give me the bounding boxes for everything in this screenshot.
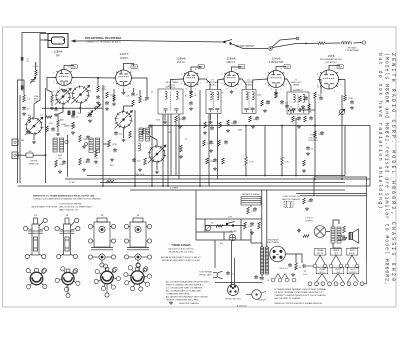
svg-text:AVC: AVC [110, 164, 114, 167]
capacitor C16 [189, 101, 193, 105]
svg-text:270: 270 [250, 108, 253, 110]
junction [281, 175, 283, 177]
wire V6 plate [339, 80, 346, 96]
filament pins row 2 [308, 282, 312, 286]
terminal ext ant [362, 41, 365, 44]
junction [97, 77, 99, 79]
svg-text:SENSITIVITY: TO OBTAIN MAXIMUM: SENSITIVITY: TO OBTAIN MAXIMUM ELECTRICA… [33, 195, 95, 198]
svg-text:A.C.: A.C. [220, 242, 224, 245]
trimmer capacitor C6B [95, 104, 101, 110]
capacitor [86, 135, 90, 139]
resistor R29 [314, 92, 317, 98]
capacitor C42 [254, 275, 258, 279]
label plate voltage V5 [284, 65, 290, 69]
wire [57, 127, 59, 132]
ground [54, 113, 58, 116]
capacitor C1 block [21, 57, 24, 61]
wire [123, 128, 125, 139]
resistor R17 [219, 122, 222, 128]
ground V5 [274, 91, 278, 94]
svg-text:(Models H860R and H8841-revise: (Models H860R and H8841-revised are simi… [384, 53, 390, 285]
wire rail x135 [134, 110, 136, 186]
svg-text:6: 6 [280, 68, 281, 70]
ground [138, 168, 142, 171]
phono jack terminals [213, 272, 223, 279]
resistor R45 [308, 104, 311, 110]
output transformer T5 [261, 247, 269, 274]
wire rail x103 [102, 85, 104, 186]
wire [67, 135, 69, 177]
resistor R40 [295, 263, 298, 270]
svg-text:3: 3 [271, 89, 272, 91]
svg-text:1: 1 [200, 83, 201, 85]
svg-text:470K: 470K [318, 134, 323, 136]
svg-text:4: 4 [181, 83, 182, 85]
capacitor C33 [250, 222, 254, 226]
wire rail x168 [167, 114, 169, 186]
svg-text:IF TRANSFORMER TERMINAL GUIDE: IF TRANSFORMER TERMINAL GUIDE WITH AC TE… [275, 288, 327, 291]
capacitor C12 [114, 131, 118, 135]
resistor R10 [139, 96, 142, 103]
wire gang C1A [58, 104, 63, 121]
label filament 12AT7 row 2 [332, 267, 344, 274]
svg-text:VOLUME: VOLUME [309, 137, 318, 139]
capacitor C23 [266, 100, 270, 104]
wire T2 to V4 grid [218, 79, 225, 90]
capacitor C31 [306, 146, 310, 150]
osc coil winding B [146, 128, 150, 141]
wire bus y186 [18, 185, 371, 187]
svg-text:DISCRIMINATOR DET: DISCRIMINATOR DET [320, 58, 343, 61]
ground [209, 149, 213, 152]
wire V6 plate supply [329, 66, 340, 71]
svg-text:EXT ANT: EXT ANT [347, 47, 357, 50]
wire gang C1C [124, 106, 134, 112]
svg-text:LIGHTS: LIGHTS [305, 220, 313, 222]
ground [189, 107, 193, 110]
svg-text:BACK OF CHASSIS: BACK OF CHASSIS [282, 198, 300, 201]
svg-text:6: 6 [334, 68, 335, 70]
svg-text:12BA6: 12BA6 [226, 56, 236, 60]
RF coil winding L3 secondary [96, 138, 100, 153]
wire [240, 219, 242, 240]
svg-text:LOOP: LOOP [33, 66, 39, 68]
svg-text:1ST I.F.: 1ST I.F. [177, 61, 186, 64]
ground [105, 107, 109, 110]
capacitor [86, 158, 90, 162]
pilot lamp PL1 [314, 226, 326, 238]
capacitor C17 [210, 126, 214, 130]
resistor R5 [57, 120, 60, 127]
wire V1 grid [47, 78, 56, 96]
wire power bus [196, 218, 262, 220]
wire [223, 232, 225, 240]
loop antenna [44, 34, 68, 48]
svg-text:FM DIAL AT FREQUENCY 90 MC & 1: FM DIAL AT FREQUENCY 90 MC & 106 MC [162, 259, 201, 262]
svg-text:A-10254-17: A-10254-17 [237, 304, 248, 307]
wire V5 plate supply [276, 67, 286, 71]
tuning gang C1D [148, 145, 166, 163]
svg-text:1: 1 [340, 85, 341, 87]
svg-text:117V: 117V [228, 217, 233, 219]
resistor R6 [72, 122, 75, 129]
IF transformer T1 [158, 89, 183, 114]
svg-text:PH PIN: PH PIN [31, 161, 38, 163]
wire gang C1B [80, 103, 82, 114]
wire top bus [121, 41, 224, 43]
phono input jack J2 [12, 152, 18, 159]
ground [350, 106, 354, 109]
wire [156, 162, 158, 170]
tube V5 12AV6 AM detector [266, 71, 287, 88]
arrow external antenna [71, 40, 76, 43]
svg-text:12AV6: 12AV6 [333, 249, 340, 252]
padder capacitor block [68, 111, 71, 116]
svg-text:OTHERWISE SPECIFIED.: OTHERWISE SPECIFIED. [166, 293, 191, 295]
wire [261, 274, 263, 276]
svg-text:2ND I.F.: 2ND I.F. [317, 253, 324, 255]
on-off switch S1B [226, 222, 234, 227]
junction [62, 107, 64, 109]
svg-text:PHONO MOTOR: PHONO MOTOR [225, 299, 241, 301]
wire V5 plate to T4 [285, 79, 292, 92]
ratio detector transformer T4 [287, 92, 309, 114]
ground V2 [122, 91, 126, 94]
svg-text:CONV: CONV [120, 56, 128, 60]
svg-text:88-108 MC F.M. (10.7 MC): 88-108 MC F.M. (10.7 MC) [169, 252, 194, 254]
resistor R31 [245, 157, 248, 165]
svg-text:INPUT TRANS: INPUT TRANS [166, 81, 179, 84]
junction [55, 107, 57, 109]
svg-text:260V: 260V [338, 67, 343, 69]
svg-text:SPKR COIL: SPKR COIL [29, 163, 41, 165]
resistor R41 [303, 198, 306, 204]
capacitor C37 [309, 198, 313, 202]
wire motor lead B [234, 258, 236, 285]
svg-text:SELENIUM: SELENIUM [268, 239, 279, 241]
resistor [55, 160, 58, 167]
svg-text:4.7K: 4.7K [249, 162, 254, 164]
resistor R16 [204, 122, 207, 128]
capacitor C24 [280, 100, 284, 104]
svg-text:455 KC: 455 KC [209, 85, 216, 87]
svg-text:.05: .05 [211, 223, 214, 225]
resistor R8 [113, 95, 116, 101]
wire V2 plate supply [124, 64, 134, 71]
svg-text:1ST I.F.: 1ST I.F. [319, 272, 326, 274]
svg-text:1: 1 [241, 83, 242, 85]
ground [56, 133, 60, 136]
wire [313, 177, 315, 196]
svg-text:2X12: 2X12 [49, 123, 53, 125]
capacitor C19 [209, 140, 213, 144]
junction [79, 107, 81, 109]
wire V1 plate to V2 [72, 77, 116, 80]
wire [245, 126, 247, 158]
svg-text:OSC: OSC [77, 113, 82, 115]
oscillator coil L5 [138, 143, 140, 151]
resistor R1 [23, 95, 26, 102]
svg-text:3: 3 [186, 88, 187, 90]
svg-text:.01: .01 [317, 87, 320, 89]
svg-text:AND THE REST OF CHASSIS.: AND THE REST OF CHASSIS. [275, 297, 302, 300]
wire left rail C [45, 88, 47, 183]
wire phono lead [18, 154, 26, 156]
ground [88, 119, 92, 122]
capacitor C4 [54, 107, 58, 111]
wire ant branch [272, 39, 296, 48]
ground [163, 121, 167, 124]
output transformer T6 secondary [337, 227, 341, 243]
svg-text:2.2 MEG: 2.2 MEG [170, 188, 178, 190]
wire bus y182 [100, 182, 345, 184]
label filament 12AV6 [330, 249, 342, 256]
coil L1 bottom view [26, 268, 47, 289]
wire [344, 126, 346, 176]
junction [239, 66, 241, 68]
junction [314, 125, 316, 127]
wire V4 plate supply [232, 67, 241, 72]
svg-text:but do not have radiation shie: but do not have radiation shielding). [377, 53, 383, 213]
resistor R37 [216, 225, 223, 228]
wire T1 lead 2 [178, 114, 180, 179]
svg-text:12BA6: 12BA6 [176, 56, 186, 60]
wire step to output [196, 190, 215, 268]
ground [71, 131, 75, 134]
antenna coil L1 [28, 115, 30, 123]
socket lugs [271, 274, 296, 282]
label plate voltage V4 [239, 65, 245, 69]
on-off switch S1A [224, 40, 232, 45]
resistor R32 [281, 157, 284, 165]
wire output primary riser B [266, 190, 268, 247]
wire rail x296 [295, 126, 297, 176]
resistor R48 [180, 145, 183, 152]
svg-text:PINS TO CHASSIS GROUND WITH A.: PINS TO CHASSIS GROUND WITH A.C. [166, 284, 204, 287]
ground [110, 158, 114, 161]
resistor R43 [343, 226, 346, 233]
ground [213, 167, 217, 170]
capacitor C30 [320, 131, 324, 135]
junction [102, 185, 104, 187]
wire rail x342 [341, 95, 343, 177]
resistor R44 [299, 96, 302, 102]
wire V3 plate supply [191, 67, 200, 72]
coil L3 bottom view [94, 264, 120, 297]
capacitor C11 [145, 96, 149, 100]
tuning gang C1C [114, 110, 132, 128]
resistor R49 [45, 116, 52, 119]
wire rail x152 [151, 126, 153, 187]
svg-text:TO AC OUTLET ON: TO AC OUTLET ON [282, 195, 300, 198]
capacitor C8 [96, 95, 100, 99]
wire [338, 237, 347, 240]
wire [210, 114, 212, 121]
wire bus y175 [87, 175, 345, 177]
svg-text:1 MEG: 1 MEG [83, 162, 90, 164]
svg-text:2: 2 [128, 88, 129, 90]
wire gang C1D lead [150, 136, 157, 146]
capacitor C7 [88, 113, 92, 117]
junction [94, 107, 96, 109]
wire [338, 235, 345, 237]
coil L2 bottom view [55, 267, 80, 298]
svg-text:19T8: 19T8 [350, 250, 356, 252]
resistor R22 [222, 158, 225, 164]
svg-text:540-1620 KC A.M. (455 KC): 540-1620 KC A.M. (455 KC) [168, 247, 194, 250]
capacitor C26 [309, 116, 313, 120]
wire antenna feed [40, 34, 48, 41]
svg-text:4: 4 [265, 84, 266, 86]
svg-text:.05: .05 [26, 61, 29, 63]
svg-text:40: 40 [267, 280, 269, 282]
svg-text:6: 6 [236, 69, 237, 71]
svg-text:470K: 470K [112, 144, 117, 146]
phono input jack J1 [12, 139, 18, 146]
resistor R12 [142, 128, 145, 135]
svg-text:12AV6: 12AV6 [271, 56, 280, 60]
svg-text:35C5-GT: 35C5-GT [279, 268, 288, 270]
terminal [65, 140, 68, 143]
ground V4 [230, 90, 234, 93]
wire [345, 125, 370, 127]
wire [333, 243, 341, 248]
resistor R28 [288, 109, 295, 112]
junction [270, 48, 272, 50]
junction [314, 125, 316, 127]
ground [305, 207, 309, 210]
svg-text:220K: 220K [348, 98, 353, 100]
svg-text:WIRING IN CONTROLS FACING 5 SQ: WIRING IN CONTROLS FACING 5 SQUARE VERSI… [275, 302, 323, 305]
ground [155, 171, 159, 174]
wire power bus 4 [215, 239, 251, 241]
junction [199, 185, 201, 187]
svg-text:260V: 260V [72, 67, 77, 69]
capacitor C35 [226, 271, 230, 275]
svg-text:ALL VOLTAGES MEASURED FROM SOC: ALL VOLTAGES MEASURED FROM SOCKET [166, 281, 209, 284]
wire [103, 143, 109, 145]
resistor R27 [304, 116, 307, 122]
svg-text:.01: .01 [185, 139, 188, 141]
capacitor [62, 160, 66, 164]
wire rail x200 [199, 90, 201, 186]
wire [245, 165, 247, 176]
svg-text:2: 2 [236, 88, 237, 90]
svg-text:ALL VOLTAGES ARE ±10% AND MAY: ALL VOLTAGES ARE ±10% AND MAY [166, 289, 202, 292]
tube V2 12AT7 converter [114, 70, 134, 86]
svg-text:TO EXTERNAL: TO EXTERNAL [199, 271, 212, 274]
AC outlet [284, 202, 293, 208]
resistor R36 [247, 207, 250, 214]
wire T3 to V5 [253, 79, 268, 90]
wire rail x265 [264, 126, 266, 176]
wire rail x22 to antenna [22, 33, 46, 92]
ground [251, 125, 255, 128]
resistor R15 [190, 92, 193, 98]
output transformer T6 primary [331, 227, 335, 243]
wire [33, 154, 46, 156]
wire [34, 62, 36, 70]
wire [295, 118, 297, 126]
svg-text:3: 3 [227, 88, 228, 90]
svg-text:CHASSIS TO REMOVE THEM FOR BOT: CHASSIS TO REMOVE THEM FOR BOTTOM UP CHA… [275, 294, 327, 297]
tube V4 12BA6 2nd IF [222, 72, 241, 87]
resistor R38 [244, 222, 247, 229]
junction [162, 185, 164, 187]
resistor R21 [206, 158, 209, 164]
ground [250, 231, 254, 234]
svg-text:AUDIO: AUDIO [349, 252, 355, 255]
wire T1 secondary return [162, 114, 164, 186]
ground [178, 125, 182, 128]
ground V1 cathode [62, 89, 66, 92]
ground [122, 139, 126, 142]
label filament 12BA6 row 2 [316, 267, 328, 274]
coil ext ant choke [341, 42, 352, 44]
thermistor [205, 225, 211, 231]
svg-text:4: 4 [53, 82, 54, 84]
junction [305, 43, 307, 45]
junction [151, 185, 153, 187]
junction [341, 178, 343, 180]
wire left rail A [17, 88, 19, 183]
svg-text:3: 3 [323, 91, 324, 93]
capacitor C38 [297, 229, 301, 233]
antenna coil winding L2 secondary [60, 138, 64, 152]
svg-text:OUTPUT: OUTPUT [349, 272, 357, 274]
ground [291, 273, 295, 276]
svg-text:220K: 220K [101, 89, 106, 91]
wire [175, 122, 177, 176]
svg-text:CONTROL: CONTROL [308, 140, 319, 142]
ground [22, 112, 26, 115]
label plate voltage V2 [131, 65, 137, 69]
wire chassis outline [314, 177, 367, 262]
trimmer C3A [30, 77, 36, 83]
wire V6 grid [320, 80, 322, 95]
antenna coil winding L2 primary [53, 138, 57, 152]
filament fan wires row 2 [317, 274, 328, 282]
capacitor C5 [26, 130, 30, 134]
capacitor C41 [285, 104, 289, 108]
wire to trimmer [34, 60, 40, 118]
svg-text:2: 2 [334, 91, 335, 93]
junction [151, 125, 153, 127]
resistor R30 [344, 95, 347, 101]
label plate voltage V3 [198, 65, 204, 69]
svg-text:PICKUP: PICKUP [258, 300, 266, 302]
svg-text:2 PILOT: 2 PILOT [305, 218, 313, 220]
svg-text:PHONO JACK: PHONO JACK [199, 273, 212, 276]
phono pickup P1 [252, 290, 262, 300]
resistor R34 [314, 131, 317, 137]
terminal [84, 142, 87, 145]
capacitor C27 [298, 108, 302, 112]
resistor R46 [108, 140, 111, 147]
svg-text:1 MEG: 1 MEG [207, 143, 214, 145]
resistor [79, 158, 82, 165]
label filament 12BA6 [314, 249, 326, 256]
capacitor C3 [22, 106, 26, 110]
tube V3 12BA6 1st IF [182, 72, 201, 87]
filament fan wires row 1 [315, 255, 325, 264]
wire [333, 220, 339, 227]
wire rail x315 [314, 98, 316, 177]
wire motor lead A [231, 241, 233, 285]
radiation shield box [241, 197, 261, 206]
resistor R47 [95, 150, 98, 157]
svg-text:5: 5 [113, 73, 114, 75]
